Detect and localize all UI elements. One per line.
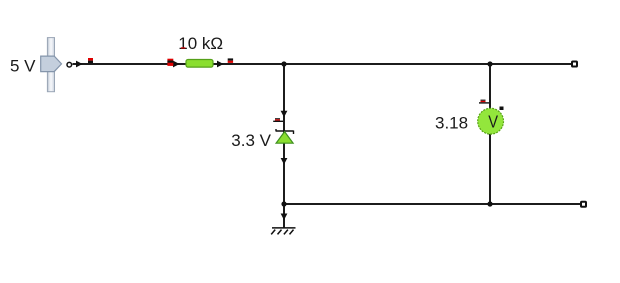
svg-text:V: V: [488, 112, 498, 132]
svg-text:3.18: 3.18: [435, 113, 468, 132]
svg-text:5 V: 5 V: [10, 57, 36, 76]
svg-text:3.3 V: 3.3 V: [231, 131, 271, 150]
svg-text:10 kΩ: 10 kΩ: [178, 34, 223, 53]
